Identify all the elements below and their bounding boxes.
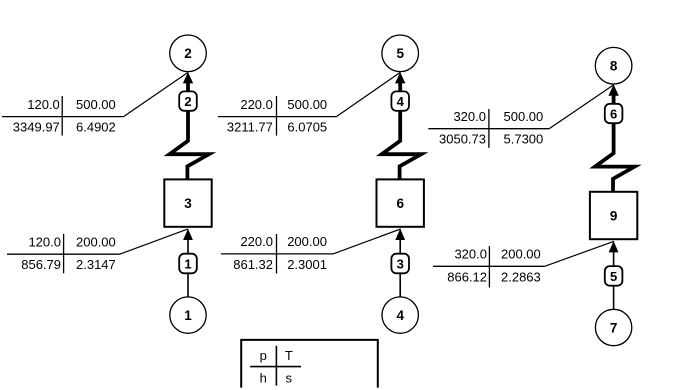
svg-text:5.7300: 5.7300 [504, 132, 544, 147]
svg-text:1: 1 [184, 256, 191, 271]
component box 3 [164, 179, 211, 226]
leader line from table state 7 [545, 241, 614, 266]
arrow into node 8 [608, 85, 618, 96]
svg-text:2: 2 [184, 46, 192, 61]
stream label box 2 [179, 91, 197, 110]
leader line from table state 8 [549, 85, 614, 129]
component box 6 [377, 179, 424, 226]
svg-text:2: 2 [184, 94, 191, 109]
value table state 3 [221, 234, 333, 274]
svg-text:320.0: 320.0 [453, 109, 486, 124]
svg-text:500.00: 500.00 [76, 97, 116, 112]
legend mini table lines [250, 346, 301, 386]
svg-text:6: 6 [610, 106, 617, 121]
wire thin [399, 273, 401, 297]
arrow into box 3 [183, 229, 193, 240]
legend box [241, 340, 378, 388]
node circle 8 [595, 47, 632, 84]
svg-text:120.0: 120.0 [27, 97, 60, 112]
stream label box 6 [605, 104, 623, 123]
node circle 5 [382, 35, 419, 72]
svg-text:200.00: 200.00 [287, 234, 327, 249]
svg-text:6.0705: 6.0705 [287, 120, 327, 135]
svg-text:7: 7 [610, 320, 618, 335]
svg-text:2.3001: 2.3001 [287, 257, 327, 272]
wire thick stem [612, 95, 616, 106]
svg-text:s: s [286, 370, 293, 385]
svg-text:866.12: 866.12 [447, 269, 487, 284]
svg-text:2.2863: 2.2863 [501, 269, 541, 284]
leader line from table state 1 [120, 229, 188, 254]
heater zigzag wire into box 6 [382, 110, 422, 179]
svg-text:5: 5 [610, 269, 617, 284]
wire thin stem [187, 240, 189, 256]
value table state 2 [2, 96, 124, 136]
svg-text:5: 5 [396, 46, 404, 61]
svg-text:8: 8 [610, 59, 618, 74]
value table state 8 [428, 109, 549, 148]
svg-text:9: 9 [610, 209, 618, 224]
svg-text:3349.97: 3349.97 [13, 120, 60, 135]
heater zigzag wire into box 9 [595, 123, 635, 192]
svg-text:6: 6 [396, 196, 404, 211]
svg-text:h: h [260, 370, 267, 385]
value table state 7 [433, 246, 545, 287]
node circle 1 [170, 297, 206, 333]
svg-text:T: T [285, 348, 293, 363]
svg-text:1: 1 [184, 308, 192, 323]
wire thin [613, 285, 615, 309]
wire thick stem [398, 83, 402, 94]
svg-text:861.32: 861.32 [233, 257, 273, 272]
svg-text:500.00: 500.00 [504, 109, 544, 124]
wire thin stem [399, 240, 401, 256]
stream label box 5 [605, 266, 623, 286]
value table state 1 [7, 234, 120, 273]
stream label box 4 [391, 91, 409, 110]
arrow into box 9 [609, 241, 619, 252]
value table state 5 [218, 96, 337, 136]
svg-text:120.0: 120.0 [28, 234, 61, 249]
svg-text:500.00: 500.00 [287, 97, 327, 112]
stream label box 1 [179, 254, 197, 274]
heater zigzag wire into box 3 [170, 110, 210, 179]
wire thin [187, 273, 189, 297]
svg-text:4: 4 [397, 94, 405, 109]
component box 9 [590, 192, 637, 239]
svg-text:p: p [260, 348, 267, 363]
svg-text:2.3147: 2.3147 [76, 257, 116, 272]
leader line from table state 2 [124, 72, 189, 116]
svg-text:320.0: 320.0 [454, 247, 487, 262]
svg-text:4: 4 [396, 308, 404, 323]
node circle 7 [595, 309, 631, 345]
wire thin stem [613, 252, 615, 268]
svg-text:220.0: 220.0 [240, 234, 273, 249]
svg-text:3050.73: 3050.73 [439, 132, 486, 147]
svg-text:200.00: 200.00 [501, 247, 541, 262]
svg-text:3: 3 [184, 196, 192, 211]
leader line from table state 5 [336, 72, 400, 116]
node circle 2 [170, 35, 207, 72]
arrow into node 2 [183, 72, 193, 83]
leader line from table state 3 [333, 229, 401, 254]
node circle 4 [382, 297, 418, 333]
svg-text:856.79: 856.79 [21, 257, 61, 272]
svg-text:3: 3 [397, 256, 404, 271]
wire thick stem [186, 83, 190, 94]
arrow into box 6 [395, 229, 405, 240]
stream label box 3 [391, 254, 409, 274]
arrow into node 5 [395, 72, 405, 83]
svg-text:3211.77: 3211.77 [227, 120, 273, 135]
svg-text:6.4902: 6.4902 [76, 120, 116, 135]
svg-text:220.0: 220.0 [240, 97, 273, 112]
svg-text:200.00: 200.00 [76, 234, 116, 249]
